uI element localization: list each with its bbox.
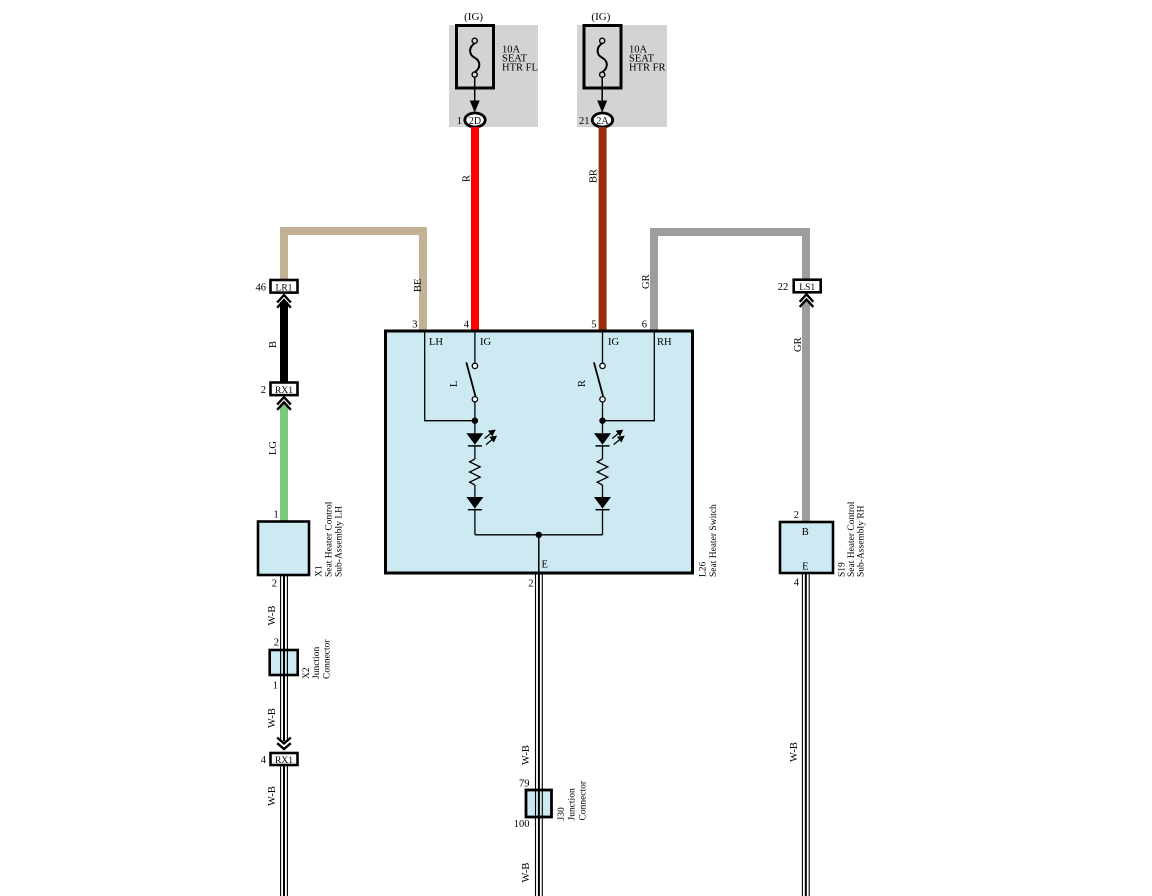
- svg-text:W-B: W-B: [521, 863, 532, 883]
- svg-text:1: 1: [457, 116, 462, 127]
- svg-text:(IG): (IG): [591, 11, 610, 23]
- svg-text:W-B: W-B: [267, 708, 278, 728]
- svg-text:79: 79: [519, 779, 530, 790]
- svg-text:HTR FL: HTR FL: [502, 63, 538, 74]
- svg-text:LG: LG: [268, 441, 279, 455]
- svg-text:IG: IG: [480, 337, 491, 348]
- svg-text:5: 5: [591, 320, 596, 331]
- svg-text:BE: BE: [413, 279, 424, 292]
- svg-text:2D: 2D: [469, 116, 481, 127]
- svg-text:R: R: [577, 380, 588, 387]
- svg-text:6: 6: [642, 320, 647, 331]
- svg-text:W-B: W-B: [267, 786, 278, 806]
- svg-text:S19Seat Heater ControlSub-Asse: S19Seat Heater ControlSub-Assembly RH: [838, 501, 867, 577]
- svg-text:2: 2: [272, 579, 277, 590]
- svg-text:BR: BR: [589, 169, 600, 183]
- svg-text:GR: GR: [641, 274, 652, 289]
- svg-text:HTR FR: HTR FR: [629, 63, 665, 74]
- svg-text:2A: 2A: [596, 116, 609, 127]
- svg-text:E: E: [542, 560, 548, 571]
- svg-text:R: R: [462, 175, 473, 182]
- svg-text:2: 2: [261, 385, 266, 396]
- svg-text:W-B: W-B: [521, 745, 532, 765]
- svg-text:B: B: [268, 341, 279, 348]
- svg-text:L: L: [449, 381, 460, 387]
- svg-text:LS1: LS1: [799, 283, 815, 293]
- svg-text:(IG): (IG): [464, 11, 483, 23]
- svg-text:RX1: RX1: [275, 386, 293, 396]
- svg-text:L26Seat Heater Switch: L26Seat Heater Switch: [699, 504, 720, 577]
- svg-text:IG: IG: [608, 337, 619, 348]
- svg-text:21: 21: [579, 116, 590, 127]
- svg-text:2: 2: [528, 579, 533, 590]
- svg-text:W-B: W-B: [789, 742, 800, 762]
- svg-text:LR1: LR1: [276, 283, 293, 293]
- svg-text:B: B: [802, 527, 809, 538]
- svg-text:RH: RH: [657, 337, 672, 348]
- svg-text:J30JunctionConnector: J30JunctionConnector: [557, 780, 588, 820]
- svg-text:2: 2: [794, 510, 799, 521]
- svg-text:X1Seat Heater ControlSub-Assem: X1Seat Heater ControlSub-Assembly LH: [314, 501, 344, 577]
- svg-text:4: 4: [261, 755, 267, 766]
- svg-text:RX1: RX1: [275, 756, 293, 766]
- svg-text:LH: LH: [429, 337, 443, 348]
- svg-text:4: 4: [794, 578, 800, 589]
- svg-text:GR: GR: [793, 337, 804, 352]
- svg-text:W-B: W-B: [267, 606, 278, 626]
- svg-text:2: 2: [274, 638, 279, 649]
- svg-text:1: 1: [273, 681, 278, 692]
- svg-text:100: 100: [514, 819, 530, 830]
- svg-text:46: 46: [256, 282, 267, 293]
- svg-text:4: 4: [464, 320, 470, 331]
- svg-text:1: 1: [274, 510, 279, 521]
- svg-text:E: E: [802, 562, 808, 573]
- svg-text:3: 3: [412, 320, 417, 331]
- svg-text:22: 22: [778, 282, 789, 293]
- svg-text:X2JunctionConnector: X2JunctionConnector: [302, 639, 332, 679]
